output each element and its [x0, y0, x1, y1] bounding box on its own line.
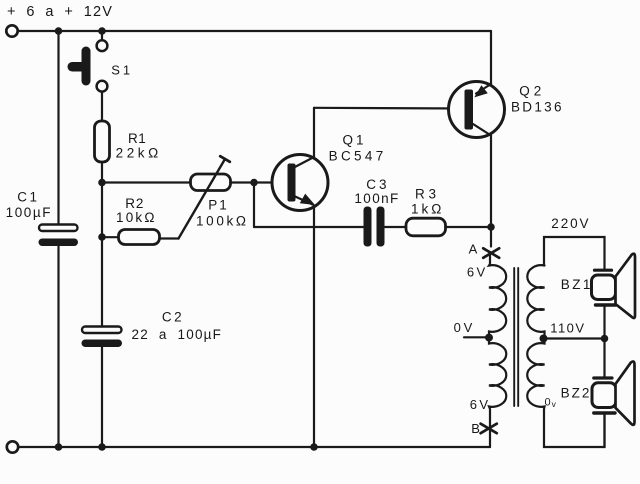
node junction base Q1: [250, 179, 258, 187]
capacitor C1: [39, 225, 79, 247]
wire node down to R2 node: [101, 183, 103, 237]
wire R2 to P1 wiper: [160, 237, 179, 239]
label B: [471, 421, 481, 436]
svg-text:+ 6 a + 12V: + 6 a + 12V: [7, 4, 113, 20]
svg-text:1kΩ: 1kΩ: [411, 202, 444, 217]
label P1: [196, 197, 249, 228]
wire BZ1 to node: [603, 307, 605, 339]
svg-text:0v: 0v: [545, 397, 557, 409]
label 110V: [550, 320, 585, 335]
wire BZ2 bottom: [603, 415, 605, 448]
node junction Q1 emitter ground: [310, 443, 318, 451]
buzzer BZ2: [592, 361, 635, 424]
terminal negative input: [7, 441, 18, 452]
wire P1 to base node: [231, 181, 255, 183]
node junction C2 ground: [98, 443, 106, 451]
label S1: [111, 62, 133, 77]
label BZ1: [561, 277, 593, 292]
inductor T1 primary winding: [489, 264, 506, 447]
potentiometer P1: [179, 156, 231, 238]
wire R1 bottom to node: [101, 162, 103, 183]
node junction secondary tap 110V: [540, 335, 548, 343]
wire R3 to collector node: [446, 226, 492, 228]
wire centre tap stub: [464, 336, 489, 338]
svg-text:BC547: BC547: [329, 148, 387, 163]
label R2: [116, 196, 157, 225]
node B mark: [481, 424, 497, 434]
wire S1 to R1: [101, 92, 103, 121]
label A: [469, 241, 479, 256]
svg-text:22 a 100µF: 22 a 100µF: [132, 327, 223, 342]
node junction C1 top: [55, 27, 63, 35]
buzzer BZ1: [592, 254, 636, 318]
wire top supply rail: [18, 30, 491, 32]
wire C2 top: [101, 237, 103, 327]
wire Q2 collector down: [490, 136, 492, 247]
label C3: [354, 177, 399, 206]
svg-text:B: B: [471, 421, 481, 436]
node junction S1 top: [98, 27, 106, 35]
label R3: [411, 186, 444, 216]
label C1: [6, 189, 53, 220]
svg-text:P1: P1: [208, 197, 229, 212]
svg-text:R2: R2: [125, 196, 144, 211]
wire Q2 emitter up: [490, 31, 492, 84]
svg-text:6V: 6V: [467, 265, 488, 280]
svg-text:100µF: 100µF: [6, 205, 53, 220]
svg-text:110V: 110V: [550, 320, 585, 335]
svg-text:100nF: 100nF: [354, 191, 399, 206]
switch S1: [68, 31, 108, 92]
capacitor C3: [364, 207, 385, 247]
svg-text:R1: R1: [128, 131, 146, 146]
svg-text:Q1: Q1: [343, 132, 367, 147]
node junction Q2 collector / R3 / A: [487, 223, 495, 231]
svg-text:A: A: [469, 241, 479, 256]
label C2: [132, 309, 223, 342]
svg-text:0V: 0V: [454, 320, 476, 335]
wire node to R2: [102, 236, 119, 238]
svg-text:R3: R3: [415, 186, 440, 201]
node junction primary centre tap 0V: [485, 334, 493, 342]
svg-text:6V: 6V: [470, 397, 491, 412]
transformer core: [514, 268, 518, 406]
label R1: [116, 131, 162, 161]
wire base node to Q1: [254, 181, 288, 183]
node junction buzzer middle: [601, 335, 609, 343]
svg-text:C3: C3: [366, 177, 389, 192]
resistor R1: [95, 121, 110, 162]
node junction R1/P1: [98, 179, 106, 187]
label 0V primary: [454, 320, 476, 335]
node +V supply label: [7, 4, 113, 20]
svg-text:Q2: Q2: [519, 83, 545, 98]
label Q2: [511, 83, 564, 114]
svg-text:22kΩ: 22kΩ: [116, 146, 162, 161]
wire A to winding: [489, 252, 491, 266]
terminal positive input: [6, 25, 17, 36]
svg-text:100kΩ: 100kΩ: [196, 213, 249, 228]
wire Q1 collector up: [313, 108, 315, 157]
resistor R2: [119, 230, 160, 245]
label 220V: [551, 216, 590, 231]
svg-text:220V: 220V: [551, 216, 590, 231]
svg-text:BD136: BD136: [511, 99, 564, 114]
resistor R3: [406, 218, 446, 236]
svg-text:S1: S1: [111, 62, 133, 77]
svg-text:C1: C1: [17, 189, 39, 204]
label 6V top: [467, 265, 488, 280]
wire base node down: [253, 183, 255, 228]
transistor Q1: [272, 155, 328, 211]
wire Q1 emitter down: [313, 206, 315, 448]
svg-text:C2: C2: [162, 309, 184, 324]
node junction R2/C2: [98, 233, 106, 241]
wire C1 bottom: [57, 246, 59, 447]
node junction C1 ground: [55, 443, 63, 451]
wire C3 to R3: [385, 226, 407, 228]
wire node to BZ2: [603, 339, 605, 378]
svg-text:BZ1: BZ1: [561, 277, 593, 292]
transistor Q2: [449, 82, 505, 138]
wire feedback to C3: [254, 226, 364, 228]
wire bottom ground rail: [18, 446, 490, 448]
wire secondary top 220V: [544, 237, 605, 271]
wire 110V tap: [544, 337, 605, 339]
label 6V bottom: [470, 397, 491, 412]
label 0v secondary: [545, 397, 557, 409]
node A mark: [483, 248, 499, 257]
wire node to P1: [102, 181, 191, 183]
label BZ2: [561, 385, 592, 400]
wire Q1 collector to Q2 base: [314, 107, 465, 110]
label Q1: [329, 132, 387, 163]
capacitor C2: [82, 327, 123, 348]
svg-text:10kΩ: 10kΩ: [116, 210, 157, 225]
wire C2 bottom: [101, 347, 103, 447]
wire C1 top: [57, 31, 59, 225]
inductor T1 secondary winding: [527, 265, 604, 447]
svg-text:BZ2: BZ2: [561, 385, 592, 400]
